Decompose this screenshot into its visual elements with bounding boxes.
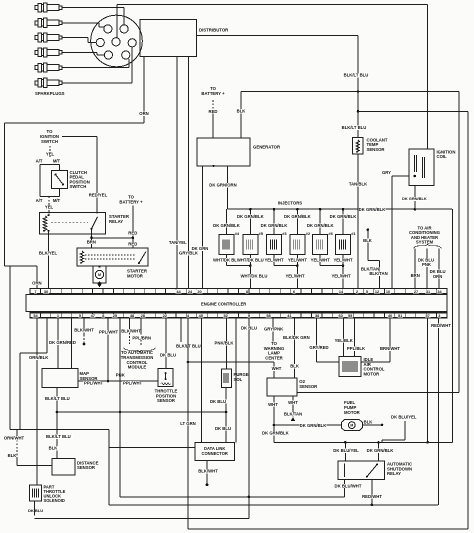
svg-text:YEL/WHT: YEL/WHT [288,257,308,262]
svg-text:60: 60 [339,314,343,318]
svg-text:M: M [350,424,353,428]
svg-text:DK BLU: DK BLU [28,508,43,513]
svg-text:A/T: A/T [36,198,43,203]
svg-text:12: 12 [375,290,379,294]
svg-text:DK BLU/YEL: DK BLU/YEL [391,414,417,419]
svg-text:MOTOR: MOTOR [364,371,380,376]
svg-text:BLK: BLK [237,109,247,114]
svg-text:M: M [98,273,101,277]
svg-text:CONNECTOR: CONNECTOR [202,451,228,456]
svg-text:YEL/WHT: YEL/WHT [285,274,305,279]
svg-text:BLK/TAN: BLK/TAN [284,412,302,417]
svg-text:27: 27 [414,290,418,294]
svg-text:BLK: BLK [363,238,373,243]
svg-text:20: 20 [197,290,201,294]
svg-text:SWITCH: SWITCH [70,184,87,189]
svg-text:WHT: WHT [272,366,282,371]
svg-text:TAN/YEL: TAN/YEL [169,240,187,245]
svg-text:DK BLU/YEL: DK BLU/YEL [333,448,359,453]
svg-text:RELAY: RELAY [109,219,123,224]
svg-text:ORN: ORN [433,274,442,279]
svg-text:#3: #3 [282,231,287,236]
svg-text:10: 10 [386,290,390,294]
svg-text:DK GRN/BLK: DK GRN/BLK [307,223,335,228]
svg-text:DK GRN/BLK: DK GRN/BLK [359,207,387,212]
svg-text:DK BLU: DK BLU [241,325,257,330]
svg-text:PPL/WHT: PPL/WHT [123,381,143,386]
svg-text:#2: #2 [306,231,311,236]
svg-text:57: 57 [425,314,429,318]
svg-text:BLK/LT BLU: BLK/LT BLU [344,73,369,78]
svg-text:YEL/WHT: YEL/WHT [331,274,351,279]
svg-text:COIL: COIL [437,154,448,159]
svg-text:ORN: ORN [32,280,41,285]
svg-text:DK GRN/BLK: DK GRN/BLK [237,214,265,219]
svg-text:9: 9 [248,314,250,318]
svg-text:GRY/RED: GRY/RED [309,345,328,350]
svg-text:YEL/WHT: YEL/WHT [311,257,331,262]
svg-text:BLK/WHT: BLK/WHT [74,328,94,333]
svg-text:SENSOR: SENSOR [157,398,175,403]
svg-text:INJECTORS: INJECTORS [278,200,302,205]
svg-text:DK GRN/ORN: DK GRN/ORN [209,183,236,188]
svg-text:PNK: PNK [422,262,432,267]
svg-text:6: 6 [293,290,295,294]
svg-text:SENSOR: SENSOR [299,384,317,389]
svg-text:PNK: PNK [116,372,126,377]
svg-text:TAN/BLK: TAN/BLK [349,182,368,187]
svg-text:BLK/YEL: BLK/YEL [39,251,58,256]
svg-text:GRY/BLK: GRY/BLK [179,251,199,256]
svg-text:WHT: WHT [288,400,298,405]
svg-text:22: 22 [163,314,167,318]
svg-text:LT GRN: LT GRN [180,421,196,426]
svg-text:BLK/TAN: BLK/TAN [369,271,387,276]
svg-text:PPL/BRN: PPL/BRN [132,335,151,340]
svg-text:SPARKPLUGS: SPARKPLUGS [35,91,65,96]
svg-text:SENSOR: SENSOR [77,465,95,470]
svg-text:PPL/WHT: PPL/WHT [99,330,119,335]
svg-text:DK GRN/BLK: DK GRN/BLK [367,448,395,453]
svg-text:PPL/WHT: PPL/WHT [84,381,104,386]
svg-text:YEL/WHT: YEL/WHT [333,257,353,262]
svg-text:DK GRN/BLK: DK GRN/BLK [402,196,427,201]
svg-text:BLK/LT BLU: BLK/LT BLU [342,125,367,130]
svg-text:BLK: BLK [49,446,59,451]
svg-text:RED: RED [209,109,218,114]
svg-text:DK GRN/BLK: DK GRN/BLK [262,431,290,436]
svg-text:MOTOR: MOTOR [127,274,144,279]
svg-text:SWITCH: SWITCH [41,139,58,144]
svg-text:RED: RED [128,231,137,236]
svg-text:BLK: BLK [8,453,18,458]
svg-text:52: 52 [224,314,228,318]
svg-text:BLK: BLK [290,364,300,369]
svg-text:DISTRIBUTOR: DISTRIBUTOR [199,28,229,33]
svg-text:7: 7 [34,290,36,294]
svg-text:BATTERY +: BATTERY + [201,91,225,96]
svg-text:DK GRN: DK GRN [192,246,209,251]
svg-text:DK GRN/BLK: DK GRN/BLK [330,214,358,219]
svg-text:BLK/WHT: BLK/WHT [198,469,218,474]
svg-text:#6: #6 [328,231,333,236]
svg-text:MODULE: MODULE [128,365,147,370]
svg-text:DK GRN/BLK: DK GRN/BLK [300,423,328,428]
svg-text:BLK/DK GRN: BLK/DK GRN [283,335,310,340]
svg-text:47: 47 [91,314,95,318]
svg-text:YEL/BLK: YEL/BLK [335,338,354,343]
svg-text:#5: #5 [259,231,264,236]
svg-text:3: 3 [438,314,440,318]
svg-text:BRN/WHT: BRN/WHT [380,346,400,351]
svg-text:40: 40 [388,314,392,318]
svg-text:YEL: YEL [46,151,55,156]
svg-text:RED/WHT: RED/WHT [362,494,382,499]
svg-text:YEL/WHT: YEL/WHT [264,257,284,262]
svg-text:ENGINE CONTROLLER: ENGINE CONTROLLER [201,302,246,307]
svg-text:BLK/LT BLU: BLK/LT BLU [46,434,71,439]
svg-text:#4: #4 [235,231,240,236]
svg-text:DK BLU: DK BLU [215,426,231,431]
svg-text:CENTER: CENTER [265,355,282,360]
svg-text:ORN: ORN [139,111,148,116]
svg-text:YEL: YEL [45,205,54,210]
svg-text:MOTOR: MOTOR [344,410,360,415]
svg-text:30: 30 [44,290,48,294]
svg-text:SYSTEM: SYSTEM [416,240,434,245]
svg-text:DK BLU: DK BLU [210,399,226,404]
svg-text:SOLENOID: SOLENOID [44,498,65,503]
svg-text:ORN/WHT: ORN/WHT [4,436,25,441]
svg-text:BLK: BLK [364,419,374,424]
svg-text:BLK/WHT: BLK/WHT [121,328,141,333]
svg-text:DATA LINK: DATA LINK [204,446,225,451]
svg-text:SOL: SOL [234,377,243,382]
svg-text:DK BLU/WHT: DK BLU/WHT [335,483,362,488]
svg-text:WHT/DK BLU: WHT/DK BLU [237,257,264,262]
svg-text:GRY: GRY [382,170,391,175]
svg-text:ORN/BLK: ORN/BLK [29,355,49,360]
svg-text:GRY/PNK: GRY/PNK [264,327,284,332]
svg-text:WHT: WHT [268,402,278,407]
svg-text:PPL/BLK: PPL/BLK [347,346,366,351]
svg-text:BATTERY +: BATTERY + [119,200,143,205]
svg-text:M/T: M/T [53,198,61,203]
svg-text:#1: #1 [351,231,356,236]
svg-text:GENERATOR: GENERATOR [253,145,281,150]
svg-text:DK BLU: DK BLU [160,352,176,357]
svg-text:RED: RED [128,241,137,246]
svg-text:DK GRN/BLK: DK GRN/BLK [284,214,312,219]
svg-text:BRN: BRN [411,273,420,278]
svg-text:RED/YEL: RED/YEL [89,193,108,198]
svg-text:PNK/BLK: PNK/BLK [215,341,235,346]
svg-text:A/T: A/T [36,159,43,164]
svg-text:SENSOR: SENSOR [367,147,385,152]
svg-text:BLK/LT BLU: BLK/LT BLU [45,396,70,401]
svg-text:RELAY: RELAY [387,471,401,476]
svg-text:DK GRN/BLK: DK GRN/BLK [261,223,289,228]
svg-text:RED/WHT: RED/WHT [431,323,451,328]
svg-text:2: 2 [356,290,358,294]
svg-text:WHT/DK BLU: WHT/DK BLU [241,274,268,279]
svg-text:DK GRN/BLK: DK GRN/BLK [213,223,241,228]
svg-text:M/T: M/T [53,159,61,164]
svg-text:BRN: BRN [87,239,96,244]
